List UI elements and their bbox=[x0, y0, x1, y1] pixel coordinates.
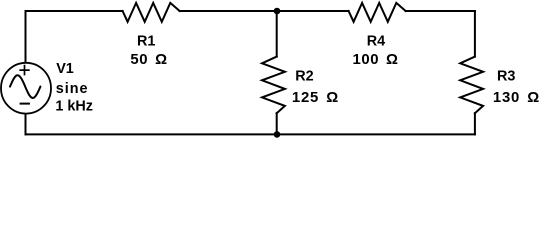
wire right rail lower lead bbox=[474, 113, 476, 134]
svg-text:125 Ω: 125 Ω bbox=[292, 90, 339, 106]
svg-text:50 Ω: 50 Ω bbox=[130, 52, 167, 68]
svg-text:R3: R3 bbox=[497, 69, 515, 85]
resistor R1 bbox=[123, 3, 180, 22]
junction node top bbox=[274, 8, 281, 15]
voltage source V1 circle bbox=[1, 63, 51, 114]
wire right rail upper lead bbox=[474, 11, 476, 57]
svg-text:sine: sine bbox=[56, 81, 89, 97]
svg-text:V1: V1 bbox=[56, 61, 74, 77]
svg-text:R1: R1 bbox=[137, 34, 155, 50]
svg-text:1 kHz: 1 kHz bbox=[55, 99, 93, 115]
voltage source V1 plus sign bbox=[19, 65, 29, 76]
junction node bottom bbox=[274, 131, 281, 138]
wire top-middle horizontal bbox=[180, 10, 349, 12]
wire bottom horizontal bbox=[26, 133, 475, 135]
wire top-left horizontal bbox=[26, 10, 123, 12]
resistor R4 bbox=[349, 3, 406, 22]
wire left rail upper bbox=[25, 11, 27, 62]
voltage source V1 minus sign bbox=[20, 103, 30, 105]
svg-text:100 Ω: 100 Ω bbox=[352, 52, 398, 68]
svg-text:R4: R4 bbox=[367, 34, 385, 50]
wire middle rail lower lead bbox=[276, 113, 278, 134]
svg-text:130 Ω: 130 Ω bbox=[493, 90, 540, 106]
wire left rail lower bbox=[25, 114, 27, 134]
wire top-right horizontal bbox=[406, 10, 475, 12]
wire middle rail upper lead bbox=[276, 11, 278, 57]
resistor R2 bbox=[262, 57, 285, 114]
voltage source V1 sine wave bbox=[10, 75, 40, 98]
svg-text:R2: R2 bbox=[295, 69, 313, 85]
resistor R3 bbox=[460, 57, 483, 114]
